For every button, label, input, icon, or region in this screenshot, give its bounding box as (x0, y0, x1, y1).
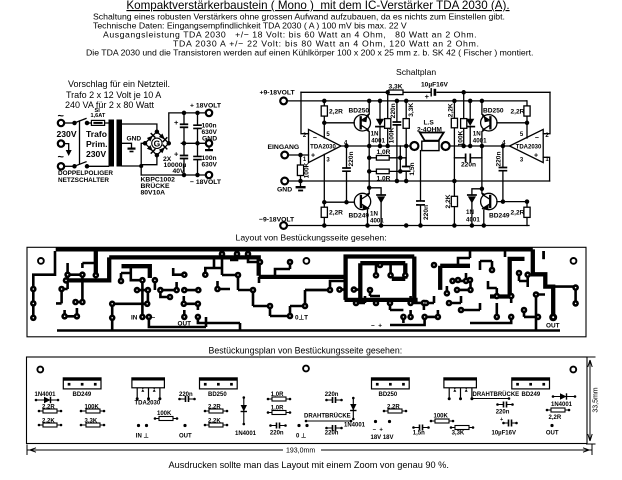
ground symbol (300, 181, 302, 186)
gnd mid rail (181, 142, 206, 144)
svg-text:3,3K: 3,3K (389, 84, 403, 91)
pcb trace thick drop v2 (66, 257, 109, 280)
svg-text:230V: 230V (86, 149, 106, 159)
svg-text:TDA2030: TDA2030 (135, 401, 161, 407)
svg-text:G: G (154, 139, 161, 149)
switch pole 2 (73, 165, 76, 168)
pcb trace thin pad stub (375, 300, 378, 303)
pads 0 (297, 424, 300, 427)
res 2,2R m (204, 410, 207, 413)
svg-text:100K: 100K (389, 127, 396, 143)
svg-text:1N4001: 1N4001 (344, 423, 366, 429)
pcb trace thick right leg (440, 266, 470, 290)
pcb trace thin q4 (470, 251, 545, 323)
svg-text:220n: 220n (270, 431, 284, 437)
transistor body Q BD249 left (63, 378, 101, 389)
wire base line top-right (497, 122, 527, 124)
svg-text:80V10A: 80V10A (141, 190, 166, 197)
node dots on H2 (323, 99, 326, 102)
wire input to pin1 (288, 154, 308, 156)
diode D3 1N4001 bottom-left (377, 194, 385, 196)
wire N to switch (65, 165, 74, 167)
svg-text:2,2R: 2,2R (549, 415, 562, 421)
pcb trace thin q3 stairs (340, 263, 438, 325)
wire top rail H2 (287, 100, 527, 102)
wire bracket diode left (369, 188, 381, 195)
diode 1N4001 l (35, 399, 38, 402)
pcb trace thin row d (184, 296, 240, 323)
bridge diode marks (147, 134, 155, 142)
svg-text:3,3K: 3,3K (452, 431, 465, 437)
capacitor 220n H3 branch (454, 146, 482, 158)
ic body TDA2030 left (132, 378, 165, 388)
pcb trace thin right cluster (447, 273, 471, 293)
pcb trace thick out right (533, 249, 553, 315)
pcb trace thick pi outer (346, 254, 415, 300)
svg-text:GND: GND (277, 187, 292, 194)
svg-text:1N4001: 1N4001 (551, 402, 573, 408)
svg-text:BD250: BD250 (483, 108, 504, 115)
pcb pad holes (33, 253, 577, 318)
resistor 100K right (feedback) (463, 92, 465, 146)
svg-text:1N4001: 1N4001 (235, 431, 257, 437)
elco C2 10000u (183, 143, 185, 175)
diode D4 1N4001 bottom-right (468, 194, 476, 196)
pcb trace thin extra density (68, 251, 505, 310)
wire gnd line (288, 180, 549, 182)
res 2,2R r (383, 410, 386, 413)
svg-text:10µF16V: 10µF16V (421, 82, 448, 89)
diode 1N4001 vert r (352, 397, 355, 400)
svg-text:1,5n: 1,5n (413, 431, 425, 437)
res 2,2R l (38, 410, 41, 413)
svg-text:+: + (174, 118, 179, 127)
wire fuse to trafo (87, 122, 109, 124)
svg-text:− +: − + (373, 428, 384, 434)
wire Q3 bottom lead (366, 209, 368, 226)
bp labels row (35, 391, 573, 441)
pcb trace thin bottom right (390, 303, 560, 331)
cap 220n b (269, 424, 272, 427)
svg-text:Vorschlag für ein Netzteil.: Vorschlag für ein Netzteil. (68, 79, 170, 89)
svg-text:OUT: OUT (178, 321, 192, 328)
ic body TDA2030 right (444, 378, 477, 388)
diode 1N4001 vert l (243, 396, 246, 399)
svg-text:L.S: L.S (424, 120, 435, 127)
svg-text:220n: 220n (348, 151, 355, 166)
transistor Q4 BD249 right (481, 193, 497, 209)
wire pin3 stub left (323, 154, 325, 202)
svg-text:DRAHTBRÜCKE: DRAHTBRÜCKE (304, 413, 351, 420)
speaker terminal right (442, 142, 450, 150)
wire pin2 U1 to feedback (301, 92, 309, 133)
svg-text:GND: GND (127, 136, 142, 143)
mounting hole middle (304, 258, 310, 264)
svg-text:BD249: BD249 (489, 213, 510, 220)
terminal GND (281, 178, 288, 185)
svg-text:Prim.: Prim. (86, 139, 108, 149)
pcb trace thick q4 pi (490, 259, 525, 297)
wire bottom rail (287, 225, 529, 227)
capacitor 1,5n (405, 172, 407, 182)
cap 10uF (502, 422, 505, 425)
pcb trace thin q3 verticals (426, 296, 434, 303)
wire H4 (1,0R row 2) (369, 170, 400, 172)
svg-text:+: + (174, 149, 179, 158)
gnd terminal symbol (208, 147, 210, 150)
pcb trace thin left column (33, 251, 55, 318)
res 1,0R b (267, 411, 270, 414)
wire Q1 emitter to output line (367, 130, 369, 146)
diode D2 1N4001 right (469, 101, 471, 146)
svg-text:100K: 100K (303, 162, 310, 178)
pcb trace thick second rail (109, 257, 259, 275)
minus terminal (206, 172, 212, 178)
pcb trace thin extra q4 (519, 251, 544, 317)
bp hole left (37, 367, 43, 373)
wire vertical Q3 top lead (368, 146, 370, 194)
svg-text:~: ~ (58, 152, 65, 164)
wire pin1 U2 to gnd line (543, 157, 549, 181)
svg-text:220n: 220n (496, 151, 503, 166)
svg-text:220n: 220n (390, 103, 397, 118)
transistor body BD250 left (200, 378, 238, 389)
wire Q4 bottom lead (483, 209, 485, 226)
bridge minus path (141, 155, 157, 165)
pads minus plus 18V (374, 420, 377, 423)
svg-text:193,0mm: 193,0mm (286, 448, 315, 455)
svg-text:−: − (535, 135, 539, 142)
wire Q4 top lead (482, 146, 484, 194)
minus rail (141, 174, 206, 176)
svg-text:TDA2030: TDA2030 (310, 145, 336, 151)
diode D1 1N4001 left (379, 101, 381, 146)
dimension 33,5mm (586, 357, 596, 444)
cap 220n r2 (325, 427, 328, 430)
svg-text:1,0R: 1,0R (377, 149, 391, 156)
svg-text:220n: 220n (461, 162, 476, 169)
wire 1,5n top connection (405, 158, 407, 167)
svg-text:Ausdrucken sollte man das Layo: Ausdrucken sollte man das Layout mit ein… (169, 460, 449, 470)
pcb trace thin bottom rail (57, 318, 390, 331)
cap C4 100n bottom (197, 143, 199, 175)
svg-text:33,5mm: 33,5mm (593, 387, 600, 412)
resistor 3,3K mid-left (405, 101, 407, 166)
node dots output line left (345, 144, 348, 147)
svg-text:Kompaktverstärkerbaustein ( Mo: Kompaktverstärkerbaustein ( Mono ) mit d… (126, 0, 509, 12)
svg-text:1,5n: 1,5n (409, 162, 416, 175)
res 100K r (430, 420, 433, 423)
wire speaker box to 220n bottom (420, 151, 422, 226)
svg-text:1N: 1N (466, 209, 474, 216)
svg-text:BD249: BD249 (73, 392, 92, 398)
secondary bottom wire (122, 165, 141, 167)
svg-text:OUT: OUT (546, 431, 559, 437)
pcb trace thin in-pads (112, 280, 206, 327)
transistor Q3 BD249 left (354, 193, 370, 209)
drahtbruecke wire r (471, 397, 474, 400)
cap 220n r1 (325, 399, 328, 402)
resistor 2,2K bottom-right (451, 196, 457, 206)
pad OUT l (183, 424, 186, 427)
gnd terminal (206, 140, 212, 146)
wire feedback line H1 (301, 91, 550, 93)
pcb trace thick mid rail (259, 275, 346, 279)
resistor 100K left (feedback) (387, 92, 389, 146)
mounting hole left (38, 258, 44, 264)
svg-text:DRAHTBRÜCKE: DRAHTBRÜCKE (473, 391, 520, 398)
svg-text:220n: 220n (496, 410, 510, 416)
pcb trace thick bottom bar (345, 298, 418, 302)
bp hole right (570, 367, 576, 373)
wire L to switch (65, 122, 74, 124)
svg-text:+ 18VOLT: + 18VOLT (190, 103, 222, 110)
svg-text:4001: 4001 (370, 218, 384, 225)
svg-text:Layout von Bestückungsseite ge: Layout von Bestückungsseite gesehen: (236, 233, 387, 243)
diode 1N4001 r4 (552, 395, 555, 398)
res 3,3K l (80, 424, 83, 427)
capacitor 220n left rail (396, 101, 398, 181)
svg-text:TDA2030: TDA2030 (516, 145, 542, 151)
switch pole 1 (73, 121, 76, 124)
node base left (323, 121, 326, 124)
capacitor 220n pin4-base right (502, 146, 504, 202)
wire base line bottom-left (324, 201, 354, 203)
wire pin5 U1 (323, 123, 325, 138)
svg-text:IN ⊥: IN ⊥ (136, 433, 149, 440)
pcb trace thick pi inner (360, 263, 405, 300)
svg-text:Bestückungsplan von Bestückung: Bestückungsplan von Bestückungsseite ges… (209, 346, 403, 356)
dim line bottom (27, 445, 592, 456)
wire bracket diode right (472, 189, 482, 195)
wire vertical 1,0R right ends (399, 146, 401, 171)
svg-text:4001: 4001 (466, 217, 480, 224)
terminal AC N (58, 163, 64, 169)
pcb trace thin stair b (131, 268, 143, 281)
svg-text:240 VA für 2 x 80 Watt: 240 VA für 2 x 80 Watt (65, 100, 155, 110)
svg-text:−: − (152, 315, 156, 322)
transistor body BD250 right (372, 378, 410, 389)
svg-text:BD250: BD250 (208, 392, 227, 398)
pcb trace thin q2 mid (270, 290, 330, 316)
op-amp U2 TDA2030 right (510, 129, 544, 162)
pcb trace thick top rail (56, 247, 533, 251)
svg-text:2,2K: 2,2K (445, 194, 452, 208)
wire Q3 top lead joins (367, 193, 369, 194)
secondary top wire (122, 124, 157, 132)
svg-text:1N4001: 1N4001 (35, 392, 57, 398)
svg-text:0 ⊥: 0 ⊥ (296, 433, 306, 440)
wire switch2 to trafo (87, 165, 109, 167)
wire Q1 collector to rail (367, 101, 369, 116)
svg-text:630V: 630V (202, 162, 218, 169)
wire H3 left (1,0R row) (369, 157, 406, 159)
svg-text:+: + (534, 152, 538, 159)
mounting hole right (571, 258, 577, 264)
svg-text:BD249: BD249 (522, 392, 541, 398)
svg-text:~: ~ (58, 111, 65, 123)
svg-text:BD250: BD250 (349, 108, 370, 115)
pcb trace thin q2 stair (206, 254, 270, 327)
wire Q2 emitter (482, 130, 484, 146)
svg-text:− 18VOLT: − 18VOLT (190, 179, 222, 186)
capacitor 10uF16V (430, 89, 432, 96)
wire Q2 collector (482, 101, 484, 116)
resistor 2,2R top-left (323, 101, 325, 123)
pcb trace thin row c (160, 268, 214, 290)
transformer T1 windings (109, 120, 115, 167)
pcb trace thick drop v1 (94, 251, 98, 274)
capacitor 220n bottom-center (417, 201, 424, 205)
resistor 2,2K right rail (453, 101, 455, 226)
pcb pads (30, 251, 579, 322)
svg-text:IN: IN (131, 315, 138, 322)
elco C1 10000u (183, 113, 185, 143)
drahtbruecke wire l (305, 420, 308, 423)
svg-text:− +: − + (371, 323, 382, 330)
res 100K l (80, 410, 83, 413)
resistor 2,2R bottom-right (526, 202, 528, 226)
resistor 100K input (300, 155, 302, 181)
svg-text:4001: 4001 (371, 138, 385, 145)
transistor body BD249 right (512, 378, 550, 389)
dimension 193mm (27, 445, 592, 456)
svg-text:−9-18VOLT: −9-18VOLT (259, 217, 295, 224)
speaker terminal left (410, 142, 418, 150)
svg-text:Die TDA 2030 und die Transisto: Die TDA 2030 und die Transistoren werden… (86, 48, 533, 58)
svg-text:+: + (500, 417, 503, 423)
svg-text:Trafo 2 x 12 Volt je 10 A: Trafo 2 x 12 Volt je 10 A (66, 90, 161, 100)
board outline bp (27, 357, 588, 444)
pads IN (137, 424, 140, 427)
bridge rectifier KBPC1002 (145, 132, 169, 156)
svg-text:OUT: OUT (179, 434, 192, 440)
svg-text:1N: 1N (371, 131, 379, 138)
svg-text:220n: 220n (423, 205, 430, 220)
svg-text:1N: 1N (370, 211, 378, 218)
node feedback junction (462, 91, 465, 94)
wire pin2 U2 to feedback (543, 92, 550, 133)
res 3,3K r (450, 426, 453, 429)
svg-text:1,0R: 1,0R (377, 176, 391, 183)
res 2,2K m (204, 424, 207, 427)
bridge plus path (169, 113, 206, 143)
svg-text:+: + (425, 92, 430, 101)
svg-text:GND: GND (202, 136, 217, 143)
res 2,2K l (38, 424, 41, 427)
res 100K mid (154, 417, 157, 420)
switch link (79, 121, 81, 164)
svg-text:4001: 4001 (473, 138, 487, 145)
svg-text:230V: 230V (57, 129, 77, 139)
op-amp U1 TDA2030 left (309, 129, 342, 162)
svg-text:1N: 1N (473, 131, 481, 138)
gnd symbol psu (128, 148, 136, 150)
bridge AC2 connection (141, 143, 145, 175)
pcb trace thin q4 right hook (553, 287, 575, 304)
capacitor 220n pin4-base left (346, 146, 348, 202)
terminal AC L (58, 120, 64, 126)
svg-text:10µF16V: 10µF16V (492, 431, 516, 437)
wire base line bottom-right (497, 201, 527, 203)
svg-text:220n: 220n (325, 431, 339, 437)
svg-text:0⊥T: 0⊥T (295, 315, 308, 322)
cap 220n r3 (496, 403, 499, 406)
svg-text:+: + (311, 152, 315, 159)
svg-text:−: − (313, 135, 317, 142)
svg-text:EINGANG: EINGANG (268, 144, 300, 151)
svg-text:630V: 630V (202, 129, 218, 136)
resistor 1,0R upper (376, 156, 389, 161)
svg-text:2,2R: 2,2R (511, 109, 525, 116)
secondary center tap to GND (122, 143, 132, 147)
wire output pin4 right (450, 145, 510, 147)
svg-text:BD250: BD250 (379, 392, 398, 398)
svg-text:DOPPELPOLIGER: DOPPELPOLIGER (58, 170, 113, 177)
svg-text:2,2R: 2,2R (329, 210, 343, 217)
svg-text:Trafo: Trafo (86, 129, 107, 139)
resistor 3,3K feedback (389, 90, 403, 95)
svg-text:40V: 40V (173, 168, 186, 175)
resistor 2,2R top-right (526, 101, 529, 123)
svg-text:Schaltplan: Schaltplan (396, 67, 436, 77)
cap C3 100n top (197, 113, 199, 143)
svg-text:2,2R: 2,2R (329, 109, 343, 116)
svg-text:2,2R: 2,2R (511, 210, 525, 217)
svg-text:NETZSCHALTER: NETZSCHALTER (58, 177, 109, 184)
wire output pin4 left (341, 145, 410, 147)
pcb trace thin cluster a (56, 275, 82, 317)
plus terminal (206, 110, 212, 116)
svg-text:2,2K: 2,2K (448, 103, 455, 117)
svg-text:3,3K: 3,3K (408, 103, 415, 117)
terminal AC mid (58, 140, 64, 146)
node dots bottom rail (323, 224, 326, 227)
node dots output right (462, 144, 465, 147)
pcb trace thick stair left (122, 266, 150, 278)
cap 1,5n (412, 426, 415, 429)
svg-text:+9-18VOLT: +9-18VOLT (260, 90, 296, 97)
svg-text:OUT: OUT (546, 323, 560, 330)
svg-text:BD249: BD249 (349, 213, 370, 220)
res 1,0R a (267, 398, 270, 401)
wire base line top-left (324, 122, 354, 124)
pcb trace thin extra q3 (449, 261, 492, 310)
svg-text:18V 18V: 18V 18V (371, 435, 394, 441)
earth arrow at mid terminal (65, 144, 69, 150)
bp small components (35, 393, 577, 431)
pcb trace thin extra q2 (214, 254, 345, 290)
svg-text:1,6AT: 1,6AT (91, 113, 106, 119)
resistor 1,0R lower (376, 169, 389, 174)
res 2,2R r4 (546, 409, 549, 412)
pcb board outline (27, 247, 586, 336)
wire pin5 stub right (526, 123, 528, 138)
bp hole middle (303, 366, 309, 372)
resistor 2,2R bottom-left (323, 202, 325, 225)
node dots gnd line (395, 179, 398, 182)
pad OUT r (550, 424, 553, 427)
cap 220n l (178, 398, 181, 401)
